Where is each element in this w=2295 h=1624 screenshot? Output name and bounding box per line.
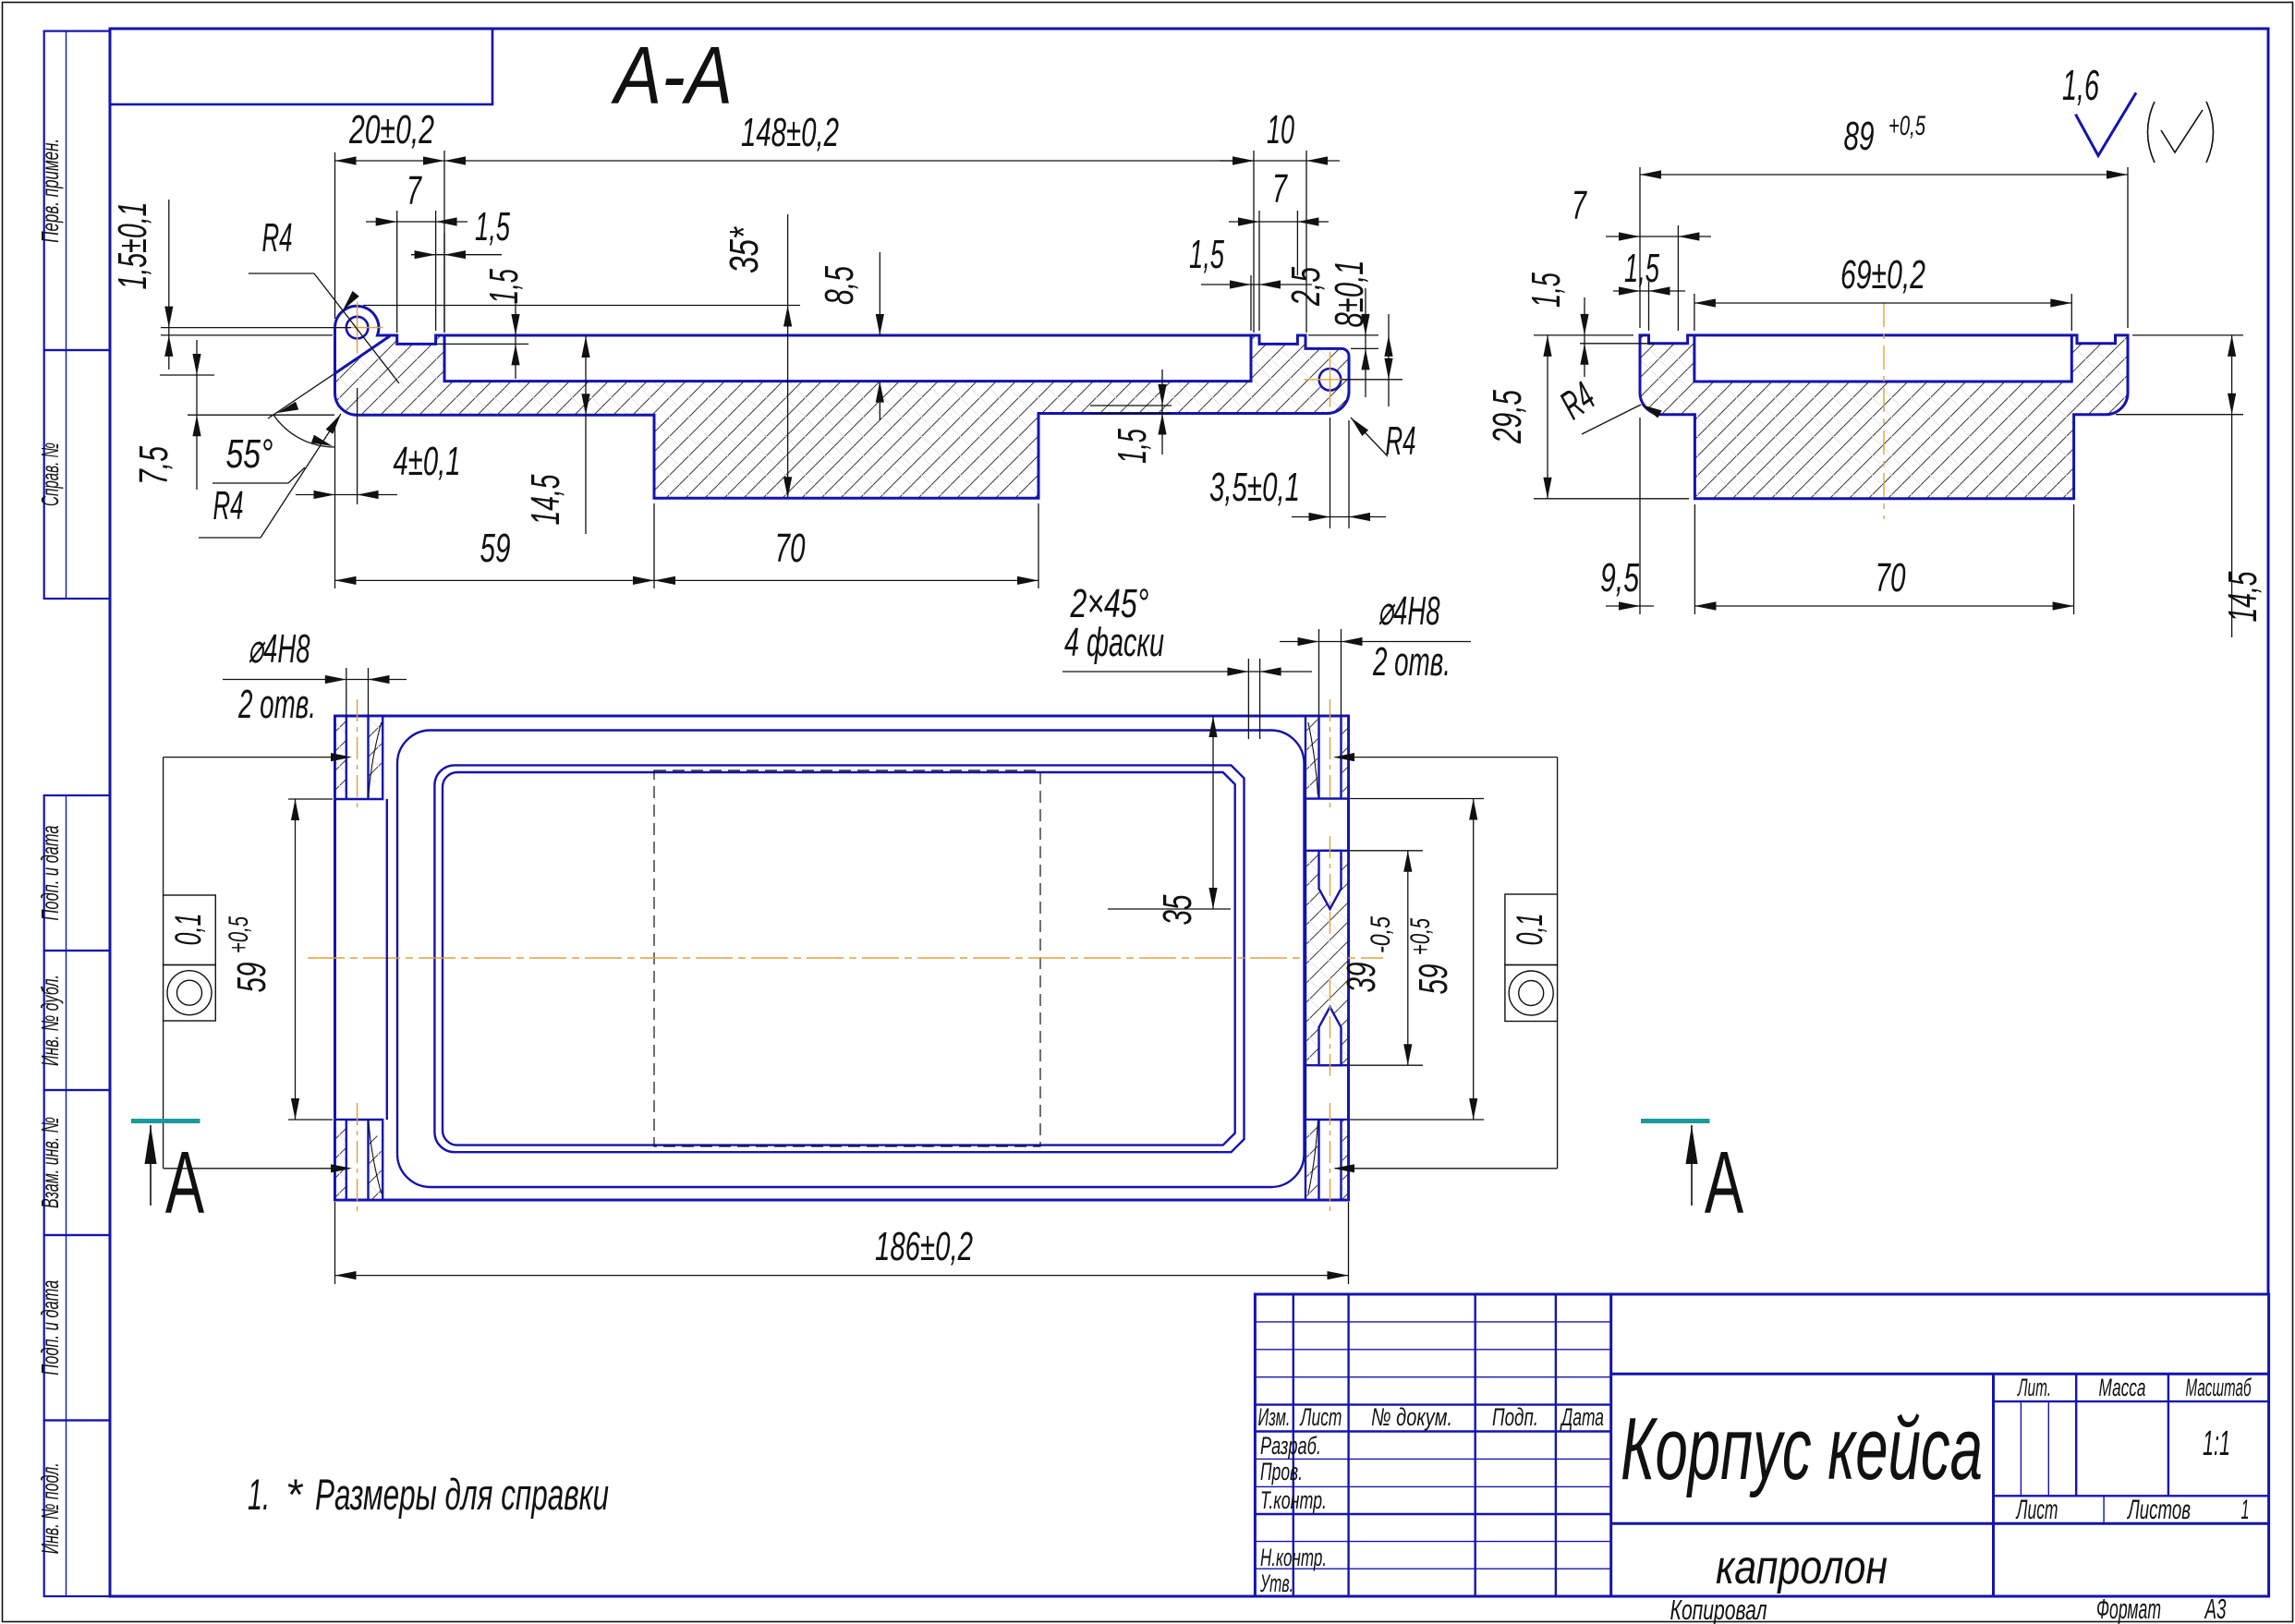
section A-A chamfer edge 55deg [335,336,391,373]
svg-text:55°: 55° [226,431,273,477]
svg-text:Инв. № дубл.: Инв. № дубл. [36,975,64,1066]
plan contour 4 (pocket rim inner) [443,772,1235,1145]
dim 59+0,5 (right) [1350,798,1484,800]
svg-text:0,1: 0,1 [1510,914,1550,946]
svg-text:№ докум.: № докум. [1371,1403,1452,1431]
svg-text:9,5: 9,5 [1600,555,1639,600]
plan left top lug (local section) [335,716,383,799]
svg-text:1,5: 1,5 [1110,429,1155,464]
left hinge knuckle (white disk) [335,306,379,349]
svg-text:186±0,2: 186±0,2 [875,1224,973,1269]
svg-text:14,5: 14,5 [523,474,568,525]
svg-text:1:1: 1:1 [2203,1424,2230,1463]
plan contour 2 (cavity rim) [397,731,1305,1188]
dim 1,5 rotated (notch depth) [1580,343,1654,345]
dim 1,5±0,1 (hinge offset) [161,327,351,329]
svg-text:8,5: 8,5 [817,266,862,305]
dim 2,5 (lug top offset) [1308,334,1378,336]
left hinge centerlines [332,327,383,329]
svg-text:7,5: 7,5 [131,446,176,485]
svg-text:7: 7 [407,168,422,213]
svg-text:1,5: 1,5 [1624,246,1659,291]
dim 70 (pocket width) [1038,503,1039,588]
right section cavity walls [1694,335,2071,382]
dim 35 (plan) [1108,908,1231,910]
svg-text:7: 7 [1572,183,1587,228]
left stamp block: Инв. № подл. [36,1421,110,1597]
dim 1,5 (right rim) [1250,275,1252,331]
svg-text:-0,5: -0,5 [1366,916,1396,953]
svg-text:R4: R4 [213,483,244,528]
left hinge hole [346,317,369,339]
svg-text:А3: А3 [2204,1593,2226,1624]
svg-text:Дата: Дата [1560,1403,1604,1431]
svg-text:R4: R4 [1386,418,1416,464]
svg-text:148±0,2: 148±0,2 [741,110,839,155]
svg-text:20±0,2: 20±0,2 [348,107,434,152]
svg-text:59: 59 [1411,964,1456,995]
svg-text:*: * [285,1470,304,1519]
svg-text:1: 1 [2241,1495,2250,1525]
svg-text:Разраб.: Разраб. [1260,1432,1321,1460]
dim 148±0,2 [1253,151,1255,333]
dim 39-0,5 [1350,850,1423,852]
section A-A chamfer notch (white) [335,328,391,374]
svg-text:1,5: 1,5 [481,269,527,304]
svg-text:Н.контр.: Н.контр. [1260,1544,1327,1571]
dim 7 (left groove) [396,211,398,333]
dim 1,5 (notch width) [1648,282,1650,331]
svg-text:капролон: капролон [1716,1541,1888,1594]
svg-text:1,5: 1,5 [475,204,510,249]
svg-text:Подп. и дата: Подп. и дата [36,826,64,921]
svg-text:2 отв.: 2 отв. [1372,639,1451,685]
svg-text:А: А [165,1133,205,1232]
dim ⌀4H8 2 отв. (left) [346,668,347,716]
plan right top lug (local section) [1305,797,1349,799]
svg-text:⌀4H8: ⌀4H8 [249,626,310,672]
svg-text:2,5: 2,5 [1283,267,1329,307]
svg-text:70: 70 [775,526,806,571]
title block outer [1255,1294,2268,1596]
dim 89+0,5 [1639,167,1641,328]
roughness mark in parentheses [2148,102,2155,163]
dim 8,5 (plate thickness) [879,252,880,335]
svg-text:7: 7 [1272,166,1288,212]
dim 70 (right section) [2073,504,2075,614]
section A-A cavity walls and bottom [444,335,1251,382]
svg-text:59: 59 [480,526,511,571]
svg-text:8±0,1: 8±0,1 [1327,261,1372,328]
svg-text:14,5: 14,5 [2220,571,2265,622]
svg-text:Утв.: Утв. [1259,1569,1293,1597]
section A-A outline [334,306,1349,498]
right hinge hole [1319,369,1342,391]
right section outline [1640,335,2128,499]
dim 14,5 (left height) [585,336,587,534]
right hinge centerlines [1305,379,1356,381]
svg-text:Корпус кейса: Корпус кейса [1621,1400,1983,1498]
svg-text:10: 10 [1267,107,1294,152]
svg-text:69±0,2: 69±0,2 [1840,252,1925,297]
title block row lines [1255,1321,1610,1323]
left stamp block: Подп. и дата [36,795,110,951]
dim 35* (total height) [363,305,800,307]
dim 7 (right section) [1677,225,1679,331]
top-left document designation box 70x14 [110,29,492,104]
dim 29,5 [1534,334,1633,336]
svg-text:89: 89 [1844,114,1875,159]
plan left bottom lug (local section) [335,1120,383,1200]
section plane mark A (left) [131,1119,200,1123]
svg-text:3,5±0,1: 3,5±0,1 [1209,465,1300,510]
svg-text:4±0,1: 4±0,1 [394,439,461,484]
dim 2x45° 4 фаски [1247,659,1249,739]
dim 4±0,1 (hinge x offset) [334,425,336,504]
dim 7,5 (chamfer height) [160,374,214,376]
dim 9,5 [1639,418,1641,614]
svg-text:Пров.: Пров. [1260,1458,1303,1485]
svg-text:39: 39 [1339,963,1384,993]
svg-text:⌀4H8: ⌀4H8 [1378,588,1440,634]
svg-text:Перв. примен.: Перв. примен. [36,139,64,243]
plan view outer rectangle [335,716,1349,1200]
svg-text:Масштаб: Масштаб [2186,1374,2252,1401]
svg-text:Инв. № подл.: Инв. № подл. [36,1462,64,1554]
svg-text:Листов: Листов [2127,1495,2191,1525]
svg-text:Лист: Лист [2015,1495,2058,1525]
svg-text:0,1: 0,1 [168,914,209,946]
dim 10 [1305,151,1307,333]
dim 1,5 (right step) [1090,405,1172,406]
svg-text:59: 59 [229,963,274,993]
svg-text:2 отв.: 2 отв. [237,682,316,727]
svg-text:+0,5: +0,5 [1405,918,1436,955]
title block right part lines [1611,1373,2269,1376]
svg-text:Изм.: Изм. [1258,1403,1291,1431]
dim 1,5 (left rim) [443,233,445,333]
svg-text:35: 35 [1155,894,1200,925]
svg-text:Лист: Лист [1299,1403,1342,1431]
left stamp block: Взам. инв. № [36,1090,110,1235]
dim 1,5 (left groove depth) [436,343,528,345]
left stamp block: Справ. № [36,350,110,599]
plan contour 3 (pocket rim outer) [434,765,1244,1152]
svg-text:Взам. инв. №: Взам. инв. № [36,1117,64,1208]
left stamp block: Подп. и дата [36,1235,110,1421]
svg-text:Масса: Масса [2099,1374,2146,1401]
svg-text:1.: 1. [248,1470,270,1519]
section A-A hatched body [334,306,1349,498]
dim 20±0,2 [334,152,336,319]
section plane mark A (right) [1641,1119,1710,1123]
svg-text:Справ. №: Справ. № [36,442,64,506]
svg-text:1,5: 1,5 [1189,232,1224,277]
plan hidden pocket (dashed) [654,770,1040,1146]
dim ⌀4H8 2 отв. (right) [1318,629,1320,716]
right section hatched body [1640,335,2128,499]
plan right wall inner edge [1305,716,1306,1200]
plan right middle lug block (blind holes) [1305,851,1349,1065]
svg-text:Лит.: Лит. [2017,1374,2051,1401]
title block column lines [1293,1294,1294,1596]
right section cavity (white) [1694,335,2071,382]
plan left wall inner edge [386,799,388,1120]
dim 7 (right groove) [1258,211,1260,331]
svg-text:1,5±0,1: 1,5±0,1 [110,202,155,290]
svg-text:А-А: А-А [611,30,733,121]
svg-text:4 фаски: 4 фаски [1064,620,1164,665]
dim 186±0,2 [334,1202,336,1284]
svg-text:Копировал: Копировал [1670,1594,1767,1624]
dim 14,5 (right section) [2132,334,2243,336]
dim 3,5±0,1 (right hole offset) [1330,418,1331,528]
svg-text:+0,5: +0,5 [224,916,254,953]
dim 8±0,1 (right hole depth) [1342,379,1402,381]
svg-text:Подп. и дата: Подп. и дата [36,1280,64,1376]
dim 59+0,5 (left) [288,798,333,800]
svg-text:70: 70 [1876,555,1906,600]
left stamp block: Инв. № дубл. [36,951,110,1090]
dim 55° (chamfer angle) [268,373,335,418]
svg-text:+0,5: +0,5 [1888,111,1925,141]
left stamp block: Перв. примен. [36,31,110,350]
plan horizontal centerline [308,957,1383,959]
svg-text:Т.контр.: Т.контр. [1260,1486,1327,1514]
svg-text:1,5: 1,5 [1524,273,1569,308]
plan right bottom lug (local section) [1305,1119,1349,1121]
svg-text:1,6: 1,6 [2062,61,2099,109]
dim 59 (bottom left) [334,504,336,588]
svg-text:А: А [1705,1133,1744,1232]
right section centerline [1883,303,1885,519]
svg-text:Подп.: Подп. [1492,1403,1538,1431]
svg-text:Формат: Формат [2096,1593,2161,1624]
svg-text:Размеры для справки: Размеры для справки [315,1470,609,1519]
svg-text:R4: R4 [262,215,293,261]
concentricity tolerance frame (left) [164,895,216,965]
svg-text:29,5: 29,5 [1485,390,1530,444]
section A-A cavity (white) [444,335,1251,382]
svg-text:35*: 35* [722,226,767,273]
dim 69±0,2 [1694,294,1695,331]
concentricity tolerance frame (right) [1505,894,1558,965]
